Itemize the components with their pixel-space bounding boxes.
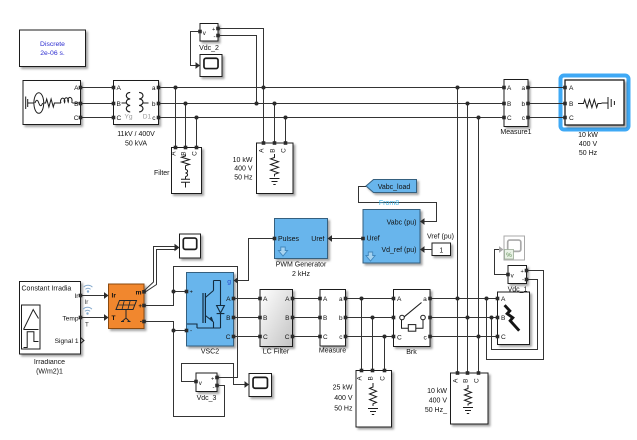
svg-text:B: B <box>501 315 506 322</box>
svg-text:From8: From8 <box>379 200 399 207</box>
svg-text:A: A <box>569 85 574 92</box>
svg-text:B: B <box>323 315 327 322</box>
svg-text:B: B <box>285 315 290 322</box>
svg-text:Vdc_2: Vdc_2 <box>199 45 219 52</box>
svg-text:50 Hz: 50 Hz <box>234 174 253 181</box>
svg-text:Vd_ref (pu): Vd_ref (pu) <box>381 247 416 254</box>
svg-text:PWM Generator: PWM Generator <box>276 262 327 269</box>
svg-text:A: A <box>501 296 506 303</box>
svg-text:C: C <box>263 334 268 341</box>
svg-text:400 V: 400 V <box>234 166 253 173</box>
svg-text:2 kHz: 2 kHz <box>292 271 310 278</box>
svg-text:A: A <box>74 85 79 92</box>
svg-text:400 V: 400 V <box>429 397 448 404</box>
svg-text:Temp: Temp <box>62 316 78 323</box>
svg-text:B: B <box>74 101 79 108</box>
svg-text:A: A <box>357 376 364 381</box>
svg-text:50 kVA: 50 kVA <box>125 141 147 148</box>
svg-text:Pulses: Pulses <box>278 236 300 243</box>
svg-text:Discrete: Discrete <box>40 41 65 48</box>
svg-text:B: B <box>263 315 268 322</box>
svg-text:C: C <box>117 115 122 122</box>
svg-text:Constant Irradia: Constant Irradia <box>22 286 72 293</box>
svg-text:Irradiance: Irradiance <box>34 359 65 366</box>
svg-text:+: + <box>521 269 524 275</box>
svg-text:a: a <box>339 296 343 303</box>
svg-text:B: B <box>181 151 188 155</box>
svg-text:10 kW: 10 kW <box>578 132 598 139</box>
svg-text:+: + <box>212 27 215 33</box>
svg-text:Uref: Uref <box>311 236 324 243</box>
svg-text:C: C <box>281 148 288 153</box>
svg-text:b: b <box>152 101 156 108</box>
svg-text:C: C <box>323 334 328 341</box>
svg-text:A: A <box>323 296 328 303</box>
svg-text:+: + <box>138 303 142 310</box>
svg-text:Brk: Brk <box>406 349 417 356</box>
svg-text:+: + <box>211 376 214 382</box>
svg-text:D1: D1 <box>143 114 152 121</box>
svg-text:50 Hz: 50 Hz <box>334 406 353 413</box>
svg-text:m: m <box>135 289 141 296</box>
svg-text:%: % <box>506 252 512 259</box>
svg-text:Vref (pu): Vref (pu) <box>427 233 454 240</box>
svg-text:C: C <box>474 378 481 383</box>
svg-text:C: C <box>501 334 506 341</box>
svg-text:b: b <box>521 101 525 108</box>
svg-text:A: A <box>171 151 178 156</box>
svg-text:10 kW: 10 kW <box>427 388 447 395</box>
svg-text:a: a <box>423 296 427 303</box>
svg-text:25 kW: 25 kW <box>333 384 353 391</box>
svg-text:B: B <box>463 379 470 383</box>
svg-text:a: a <box>521 85 525 92</box>
svg-text:B: B <box>270 148 277 152</box>
svg-text:50 Hz_: 50 Hz_ <box>425 407 447 414</box>
svg-text:-: - <box>212 384 214 391</box>
svg-text:Vabc (pu): Vabc (pu) <box>387 219 417 226</box>
svg-text:-: - <box>140 319 142 326</box>
svg-text:Vabc_load: Vabc_load <box>378 184 411 191</box>
svg-text:C: C <box>192 151 199 156</box>
svg-text:A: A <box>259 148 266 153</box>
svg-text:VSC2: VSC2 <box>201 348 219 355</box>
svg-text:C: C <box>569 115 574 122</box>
svg-text:B: B <box>507 101 511 108</box>
svg-text:C: C <box>74 115 79 122</box>
svg-text:Vdc_3: Vdc_3 <box>197 395 217 402</box>
svg-text:2e-06 s.: 2e-06 s. <box>40 50 65 57</box>
svg-text:g: g <box>227 278 231 285</box>
svg-text:C: C <box>397 335 402 342</box>
svg-text:A: A <box>285 296 290 303</box>
svg-text:A: A <box>117 85 122 92</box>
svg-text:B: B <box>226 315 231 322</box>
svg-text:Ir: Ir <box>112 293 117 300</box>
svg-text:C: C <box>285 334 290 341</box>
svg-text:Filter: Filter <box>154 170 170 177</box>
svg-text:400 V: 400 V <box>334 395 353 402</box>
svg-text:Uref: Uref <box>367 236 380 243</box>
svg-text:1: 1 <box>439 247 443 254</box>
svg-text:Measure: Measure <box>319 347 346 354</box>
svg-text:T: T <box>85 322 89 329</box>
svg-text:11kV / 400V: 11kV / 400V <box>117 131 155 138</box>
svg-text:-: - <box>190 327 192 334</box>
svg-text:C: C <box>380 376 387 381</box>
svg-text:B: B <box>117 101 122 108</box>
svg-text:b: b <box>339 315 343 322</box>
svg-text:T: T <box>112 315 116 322</box>
svg-text:(W/m2)1: (W/m2)1 <box>36 369 63 376</box>
svg-text:400 V: 400 V <box>579 141 598 148</box>
svg-text:Ir: Ir <box>85 299 89 306</box>
svg-text:A: A <box>507 85 512 92</box>
svg-text:a: a <box>152 85 156 92</box>
svg-text:A: A <box>453 378 460 383</box>
svg-text:Yg: Yg <box>124 114 132 121</box>
svg-text:Measure1: Measure1 <box>500 129 531 136</box>
svg-text:A: A <box>263 296 268 303</box>
svg-text:B: B <box>368 376 375 380</box>
svg-text:10 kW: 10 kW <box>233 157 253 164</box>
svg-text:C: C <box>507 115 512 122</box>
svg-text:A: A <box>397 296 402 303</box>
svg-text:-: - <box>214 34 216 41</box>
svg-text:-: - <box>522 277 524 284</box>
svg-text:C: C <box>226 334 231 341</box>
svg-text:50 Hz: 50 Hz <box>579 150 598 157</box>
svg-text:B: B <box>569 101 574 108</box>
svg-text:LC Filter: LC Filter <box>263 348 290 355</box>
svg-text:A: A <box>226 296 231 303</box>
svg-text:Vdc_1: Vdc_1 <box>508 286 528 293</box>
svg-text:Signal 1: Signal 1 <box>55 338 79 345</box>
